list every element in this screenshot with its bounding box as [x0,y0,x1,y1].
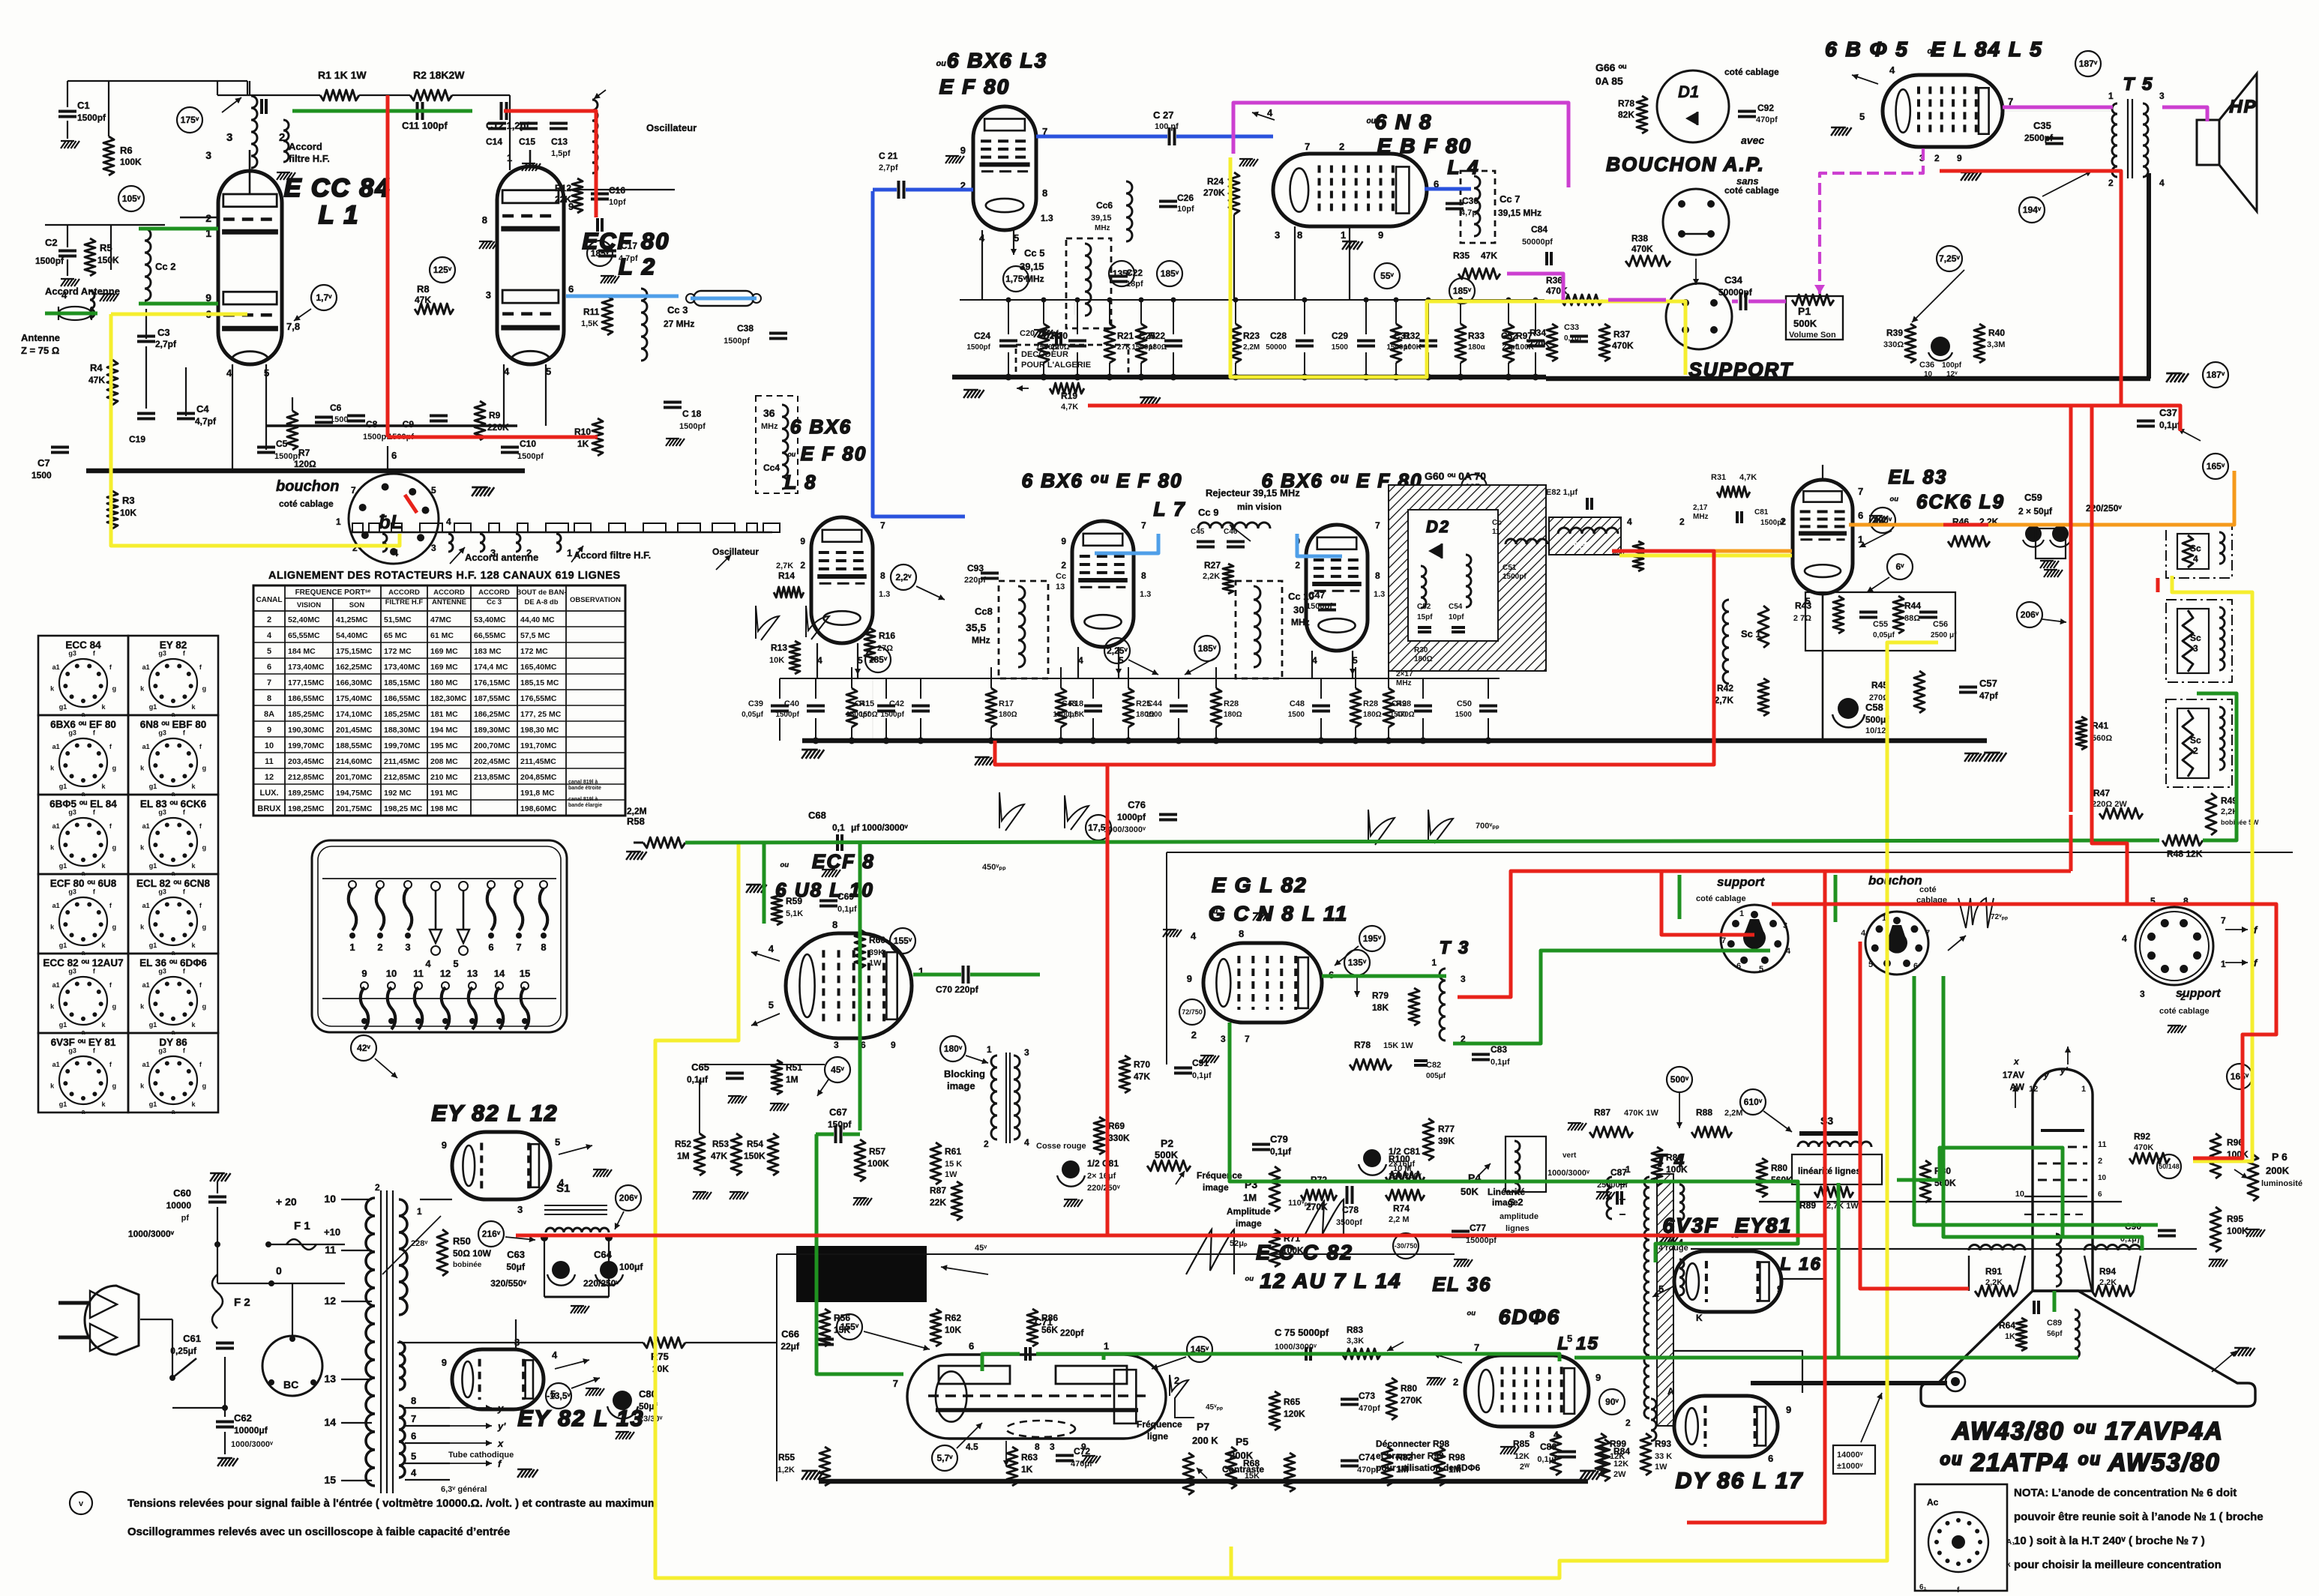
svg-text:9: 9 [1777,1283,1782,1295]
svg-text:Accord antenne: Accord antenne [465,552,538,563]
svg-text:12: 12 [324,1295,336,1307]
svg-text:6 N 8: 6 N 8 [1375,110,1433,133]
svg-text:C24: C24 [974,331,990,341]
svg-text:1K: 1K [577,439,589,449]
svg-text:174,10MC: 174,10MC [336,710,373,719]
svg-text:5: 5 [555,1136,560,1148]
svg-text:52μₚ: 52μₚ [1230,1239,1248,1248]
svg-text:1500: 1500 [31,470,52,481]
svg-text:23/30ᵛ: 23/30ᵛ [639,1415,664,1424]
svg-text:1,7ᵛ: 1,7ᵛ [316,292,332,303]
svg-text:50K: 50K [1461,1186,1479,1197]
svg-text:1.3: 1.3 [1041,213,1053,223]
svg-text:220K: 220K [1528,339,1550,349]
svg-text:Cc 3: Cc 3 [667,304,688,316]
svg-text:3: 3 [1050,1442,1055,1452]
svg-text:212,85MC: 212,85MC [288,773,325,782]
svg-text:1500pf: 1500pf [35,256,64,266]
svg-text:9: 9 [568,201,574,212]
svg-text:R100: R100 [1389,1154,1410,1164]
svg-text:g3: g3 [68,1047,76,1055]
svg-text:C65: C65 [691,1062,709,1073]
svg-text:210 MC: 210 MC [430,773,458,782]
svg-text:9: 9 [442,1357,447,1368]
svg-text:187ᵛ: 187ᵛ [2207,370,2225,380]
svg-text:176,55MC: 176,55MC [520,694,557,703]
svg-text:7: 7 [893,1378,898,1389]
svg-text:2: 2 [800,560,805,570]
svg-text:C14: C14 [486,136,502,147]
svg-text:pour utilisation de 6DΦ6: pour utilisation de 6DΦ6 [1376,1463,1481,1473]
svg-text:2,17: 2,17 [1693,504,1708,512]
svg-text:1500: 1500 [1390,711,1407,719]
svg-text:ACCORD: ACCORD [433,588,465,597]
svg-text:C46: C46 [1224,528,1238,536]
svg-text:LUX.: LUX. [259,789,278,798]
svg-text:220pf: 220pf [1060,1328,1084,1338]
svg-text:10000: 10000 [166,1200,192,1211]
svg-text:7: 7 [516,942,521,953]
svg-text:35,5: 35,5 [966,621,986,633]
svg-text:1500pf: 1500pf [1131,343,1155,352]
svg-text:2: 2 [1339,141,1344,152]
svg-text:R4: R4 [90,362,103,373]
svg-text:8: 8 [1035,1442,1040,1452]
svg-text:R53: R53 [712,1139,729,1149]
svg-text:bobinée: bobinée [453,1261,482,1269]
svg-text:2: 2 [1295,560,1300,570]
svg-text:1: 1 [507,152,512,163]
svg-text:52,40MC: 52,40MC [288,615,320,624]
svg-text:9: 9 [1378,229,1383,241]
svg-text:Cc 7: Cc 7 [1500,193,1520,205]
svg-text:10K: 10K [120,508,136,518]
svg-text:199,70MC: 199,70MC [384,741,421,750]
svg-text:L 7: L 7 [1153,498,1185,520]
svg-text:185,25MC: 185,25MC [288,710,325,719]
svg-text:R62: R62 [945,1313,961,1323]
svg-text:T 3: T 3 [1440,938,1470,958]
svg-text:72/750: 72/750 [1182,1008,1203,1016]
svg-text:C49: C49 [1392,699,1407,708]
svg-text:coté cablage: coté cablage [2159,1007,2210,1016]
svg-text:0,1μf: 0,1μf [1270,1146,1292,1157]
svg-text:C63: C63 [507,1249,525,1260]
svg-text:C4: C4 [196,403,209,415]
svg-text:R30: R30 [1414,646,1428,654]
svg-text:C87: C87 [1610,1167,1627,1178]
svg-text:C91: C91 [1192,1058,1209,1068]
svg-text:vert: vert [1562,1151,1577,1160]
svg-text:g: g [202,1002,207,1010]
svg-text:Accord Antenne: Accord Antenne [45,286,120,297]
svg-text:61 MC: 61 MC [430,631,454,640]
svg-text:Tensions relevées pour sign: Tensions relevées pour signal faible à l… [127,1497,658,1510]
svg-text:47pf: 47pf [1979,690,1999,701]
svg-text:g: g [202,684,207,692]
svg-text:g3: g3 [158,1047,166,1055]
svg-text:6: 6 [488,942,493,953]
svg-text:47K: 47K [415,295,431,305]
svg-text:C70 220pf: C70 220pf [936,984,979,995]
svg-text:198,25MC: 198,25MC [288,804,325,813]
svg-text:11: 11 [413,968,424,979]
svg-text:2× 16μf: 2× 16μf [1087,1172,1116,1181]
svg-text:182,30MC: 182,30MC [430,694,467,703]
svg-text:μf 1000/3000ᵛ: μf 1000/3000ᵛ [851,822,908,833]
svg-text:C36: C36 [1919,361,1934,370]
svg-text:4: 4 [769,943,774,954]
svg-text:filtre H.F.: filtre H.F. [289,153,330,164]
svg-text:1000pf: 1000pf [1117,812,1146,822]
svg-text:22pf: 22pf [1502,343,1518,352]
svg-text:47MC: 47MC [430,615,451,624]
svg-text:g1: g1 [59,703,67,711]
svg-text:6BΦ5 ᵒᵘ EL 84: 6BΦ5 ᵒᵘ EL 84 [49,798,117,810]
svg-text:198,25 MC: 198,25 MC [384,804,423,813]
svg-text:bouchon: bouchon [276,478,339,495]
svg-text:C93: C93 [967,563,984,573]
svg-text:S3: S3 [1820,1115,1833,1127]
svg-text:POUR L'ALGERIE: POUR L'ALGERIE [1021,361,1091,370]
svg-text:G66 ᵒᵘ: G66 ᵒᵘ [1595,61,1626,73]
svg-text:EL 83 ᵒᵘ 6CK6: EL 83 ᵒᵘ 6CK6 [140,798,207,810]
svg-text:BOUT de BAN-: BOUT de BAN- [516,588,566,597]
svg-text:10000μf: 10000μf [234,1425,268,1436]
svg-text:E F 80: E F 80 [939,75,1010,98]
svg-text:15: 15 [324,1474,336,1486]
svg-text:194ᵛ: 194ᵛ [2023,205,2042,215]
svg-text:R6: R6 [120,145,133,156]
svg-text:C10: C10 [520,439,536,449]
svg-text:10K: 10K [945,1325,961,1335]
svg-text:188,30MC: 188,30MC [384,726,421,735]
svg-text:13: 13 [324,1373,336,1385]
svg-text:4: 4 [2122,933,2127,944]
svg-text:90ᵛ: 90ᵛ [1605,1397,1619,1407]
svg-text:2500pf: 2500pf [2024,133,2054,143]
svg-text:3: 3 [1221,1034,1226,1044]
svg-text:2: 2 [377,942,382,953]
svg-text:R70: R70 [1134,1059,1150,1070]
svg-text:186,25MC: 186,25MC [474,710,511,719]
svg-text:Tube cathodique: Tube cathodique [448,1451,514,1460]
svg-text:180α: 180α [1468,343,1486,352]
svg-text:4,7K: 4,7K [1061,403,1078,412]
svg-text:Blocking: Blocking [944,1068,985,1079]
svg-text:C7: C7 [37,457,50,469]
svg-text:150K: 150K [97,255,119,265]
svg-text:66,55MC: 66,55MC [474,631,506,640]
svg-text:1: 1 [2221,959,2226,969]
svg-text:g3: g3 [68,650,76,657]
svg-text:190,30MC: 190,30MC [288,726,325,735]
svg-text:1500pf: 1500pf [1053,711,1077,719]
svg-text:support: support [2176,987,2221,1000]
svg-text:2,7K: 2,7K [776,561,793,570]
svg-text:0,1μf: 0,1μf [837,905,857,914]
svg-text:180Ω: 180Ω [1414,655,1433,663]
svg-text:7,8: 7,8 [286,321,300,332]
svg-text:5: 5 [411,1451,416,1462]
svg-text:150K: 150K [744,1151,766,1161]
svg-text:CANAL: CANAL [256,596,283,604]
svg-text:g1: g1 [149,862,157,870]
svg-text:C44: C44 [1147,699,1163,708]
svg-text:g: g [112,843,117,851]
svg-text:R44: R44 [1904,600,1921,611]
svg-text:4: 4 [425,958,431,969]
svg-text:183 MC: 183 MC [474,647,502,656]
svg-text:C79: C79 [1270,1133,1288,1145]
svg-text:110ᵛₚₚ: 110ᵛₚₚ [1288,1199,1311,1208]
svg-text:C68: C68 [808,810,826,821]
svg-text:1K: 1K [1021,1464,1033,1475]
svg-text:C11 100pf: C11 100pf [402,120,448,131]
svg-text:1K: 1K [2005,1332,2015,1341]
svg-text:0,1μf: 0,1μf [1491,1058,1510,1067]
svg-text:5: 5 [1567,1333,1572,1344]
svg-text:47K: 47K [1481,250,1497,261]
svg-text:500K: 500K [1155,1149,1179,1160]
svg-text:4,7pf: 4,7pf [195,416,217,427]
svg-text:39K: 39K [869,948,884,957]
svg-text:1: 1 [417,1206,422,1217]
svg-text:5: 5 [431,485,436,496]
svg-text:177, 25 MC: 177, 25 MC [520,710,562,719]
svg-text:27Ω: 27Ω [877,644,893,653]
svg-text:4: 4 [504,366,510,377]
svg-text:1000/3000ᵛ: 1000/3000ᵛ [1547,1169,1590,1178]
svg-text:1500: 1500 [1146,711,1163,719]
svg-text:186,55MC: 186,55MC [288,694,325,703]
svg-text:9: 9 [1786,1404,1791,1415]
svg-text:C15: C15 [519,136,535,147]
svg-text:R55: R55 [778,1452,795,1463]
svg-text:30: 30 [1293,604,1304,615]
svg-text:11: 11 [265,757,274,766]
svg-text:g3: g3 [158,968,166,975]
svg-text:470pf: 470pf [1359,1404,1380,1413]
svg-text:g1: g1 [149,942,157,949]
svg-text:C73: C73 [1359,1391,1375,1401]
svg-text:S 2: S 2 [1509,1196,1524,1208]
svg-text:luminosité: luminosité [2261,1179,2303,1188]
svg-text:330K: 330K [1108,1133,1130,1143]
svg-text:470K: 470K [1612,340,1634,351]
svg-text:MHz: MHz [972,635,990,645]
svg-text:2,2 M: 2,2 M [1389,1215,1410,1224]
svg-text:1500pf: 1500pf [846,711,870,719]
svg-text:6: 6 [1858,510,1863,521]
svg-text:ACCORD: ACCORD [478,588,510,597]
svg-text:100K: 100K [120,157,142,167]
svg-text:g3: g3 [158,809,166,816]
svg-text:P7: P7 [1197,1421,1209,1433]
svg-text:3: 3 [2193,643,2198,654]
svg-text:C1: C1 [77,100,90,111]
svg-text:1: 1 [1431,957,1437,968]
svg-text:S1: S1 [556,1182,570,1195]
svg-text:88Ω: 88Ω [1904,614,1920,623]
svg-text:214,60MC: 214,60MC [336,757,373,766]
svg-text:R95: R95 [2227,1214,2243,1224]
svg-text:EY81: EY81 [1735,1214,1793,1237]
svg-text:C33: C33 [1564,323,1579,332]
svg-text:4: 4 [1267,107,1273,118]
svg-text:C52: C52 [1417,603,1431,611]
svg-text:a1: a1 [52,1061,60,1068]
svg-text:C67: C67 [829,1106,847,1118]
svg-text:pouvoir être reunie soit à: pouvoir être reunie soit à l’anode № 1 (… [2014,1511,2264,1523]
svg-text:212,85MC: 212,85MC [384,773,421,782]
svg-text:5: 5 [453,958,458,969]
svg-text:Cc: Cc [1056,572,1066,581]
svg-text:C57: C57 [1979,678,1997,689]
svg-text:3: 3 [517,1204,523,1215]
svg-text:R86: R86 [1666,1152,1682,1163]
svg-text:1500: 1500 [1288,711,1305,719]
svg-text:C72: C72 [1074,1446,1090,1457]
svg-text:3: 3 [1783,921,1787,930]
svg-text:211,45MC: 211,45MC [384,757,420,766]
svg-text:R8: R8 [417,283,430,295]
svg-text:5: 5 [1868,960,1873,969]
svg-text:±1000ᵛ: ±1000ᵛ [1837,1462,1864,1471]
svg-text:4: 4 [1191,930,1197,942]
svg-text:15 K: 15 K [945,1160,962,1169]
svg-text:ANTENNE: ANTENNE [432,598,466,606]
svg-text:6: 6 [1736,962,1741,971]
svg-text:C78: C78 [1342,1205,1359,1215]
svg-text:k: k [2006,1561,2011,1569]
svg-text:ECF 8: ECF 8 [812,850,875,873]
svg-text:R48 12K: R48 12K [2167,849,2203,859]
svg-text:10: 10 [386,968,397,979]
svg-text:R89: R89 [1799,1200,1816,1211]
svg-text:10 M: 10 M [1393,1164,1411,1173]
svg-text:3500pf: 3500pf [1336,1218,1362,1227]
svg-text:4: 4 [2159,178,2165,188]
svg-text:ECC 82 ᵒᵘ 12AU7: ECC 82 ᵒᵘ 12AU7 [43,957,123,969]
svg-text:g1: g1 [59,1021,67,1029]
svg-text:8: 8 [1297,229,1302,241]
svg-text:82K: 82K [1618,109,1634,120]
svg-text:R86: R86 [1041,1313,1058,1323]
svg-text:MHz: MHz [761,422,778,431]
svg-text:12K: 12K [1515,1452,1530,1461]
svg-text:42ᵛ: 42ᵛ [357,1043,370,1053]
svg-text:coté cablage: coté cablage [279,499,334,509]
svg-text:R78: R78 [1618,98,1634,109]
svg-text:15K 1W: 15K 1W [1383,1041,1413,1050]
svg-text:202,45MC: 202,45MC [474,757,511,766]
svg-text:10: 10 [2015,1190,2024,1199]
svg-text:33 K: 33 K [1655,1452,1672,1461]
svg-text:Cc 2: Cc 2 [155,261,175,272]
svg-text:174,4 MC: 174,4 MC [474,663,508,672]
svg-text:41,25MC: 41,25MC [336,615,368,624]
svg-text:1W: 1W [945,1170,957,1179]
svg-text:FREQUENCE PORTˢᵉ: FREQUENCE PORTˢᵉ [295,588,371,597]
svg-text:g1: g1 [59,862,67,870]
svg-text:R17: R17 [999,699,1014,708]
svg-text:a1: a1 [142,822,150,830]
svg-text:R92: R92 [2134,1131,2150,1142]
svg-text:R38: R38 [1631,233,1648,244]
svg-text:Accord filtre H.F.: Accord filtre H.F. [574,549,651,561]
svg-text:1500pf: 1500pf [966,343,990,352]
svg-text:R27: R27 [1204,560,1221,570]
svg-text:8: 8 [1530,1430,1535,1440]
svg-text:10 ) soit à la H.T 240ᵛ: 10 ) soit à la H.T 240ᵛ ( broche № 7 ) [2014,1535,2205,1547]
svg-text:1.3: 1.3 [1374,590,1385,599]
svg-text:2: 2 [1934,153,1940,163]
svg-text:pour choisir la meilleure: pour choisir la meilleure concentration [2014,1559,2222,1571]
svg-text:L 1: L 1 [319,201,360,229]
svg-text:C60: C60 [173,1187,191,1199]
svg-text:194,75MC: 194,75MC [336,789,373,798]
svg-text:165ᵛ: 165ᵛ [2231,1071,2249,1082]
svg-text:203,45MC: 203,45MC [288,757,325,766]
svg-text:Antenne: Antenne [21,332,60,343]
svg-text:Cᴄ 3: Cᴄ 3 [487,598,502,606]
svg-text:7: 7 [1141,520,1146,531]
svg-text:avec: avec [1741,134,1764,146]
svg-text:1M: 1M [786,1074,798,1085]
svg-text:NOTA: L’anode de concentrat: NOTA: L’anode de concentration № 6 doit [2014,1487,2237,1499]
svg-text:1000/3000ᵛ: 1000/3000ᵛ [128,1229,175,1239]
svg-text:MHz: MHz [1291,617,1310,627]
svg-text:HP: HP [2229,97,2257,117]
svg-text:4: 4 [1024,1137,1029,1148]
svg-text:R80: R80 [1771,1163,1787,1173]
svg-text:C38: C38 [737,323,754,334]
svg-text:G60 ᵒᵘ 0A 70: G60 ᵒᵘ 0A 70 [1425,470,1486,482]
svg-text:180 MC: 180 MC [430,678,458,687]
svg-text:172 MC: 172 MC [384,647,412,656]
svg-text:x: x [2013,1056,2020,1067]
svg-text:g1: g1 [59,942,67,949]
svg-text:17AV: 17AV [2003,1070,2024,1080]
svg-text:g3: g3 [68,729,76,737]
svg-text:8: 8 [482,214,487,226]
svg-text:2: 2 [2098,1157,2102,1166]
svg-text:C83: C83 [1491,1044,1507,1055]
svg-text:8: 8 [880,570,885,581]
svg-text:1500pf: 1500pf [880,711,904,719]
svg-text:R91: R91 [1985,1266,2002,1277]
svg-text:g3: g3 [68,809,76,816]
svg-text:1.3: 1.3 [879,590,890,599]
svg-text:11: 11 [2098,1140,2107,1149]
svg-text:a1: a1 [52,822,60,830]
svg-text:2: 2 [2108,178,2114,188]
svg-text:175,15MC: 175,15MC [336,647,373,656]
svg-text:R58: R58 [627,816,645,827]
svg-text:P 6: P 6 [2272,1151,2288,1163]
svg-text:C48: C48 [1290,699,1305,708]
svg-text:14: 14 [324,1416,336,1428]
svg-text:1,2K: 1,2K [777,1466,795,1475]
svg-text:187ᵛ: 187ᵛ [2079,58,2098,69]
svg-text:3: 3 [486,289,491,301]
svg-text:R65: R65 [1284,1397,1300,1407]
svg-text:canal 819l à: canal 819l à [568,797,598,802]
svg-text:610ᵛ: 610ᵛ [1744,1097,1763,1107]
svg-text:185ᵛ: 185ᵛ [1198,643,1217,654]
svg-text:100pf: 100pf [1942,361,1962,370]
